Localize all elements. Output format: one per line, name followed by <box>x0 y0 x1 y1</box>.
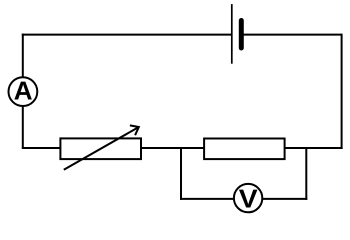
variable resistor R1 body <box>60 138 141 159</box>
battery cell short thick plate <box>239 21 244 49</box>
wire top-left horizontal <box>22 34 232 36</box>
svg-text:A: A <box>14 76 33 106</box>
variable resistor R1 arrow shaft <box>64 127 139 170</box>
resistor R2 body <box>204 139 285 160</box>
variable resistor R1 arrow head <box>130 125 139 135</box>
wire left vertical <box>22 34 24 148</box>
voltmeter V1 circle <box>234 184 262 212</box>
wire top-right horizontal <box>241 34 341 36</box>
svg-text:V: V <box>239 184 259 214</box>
battery cell long plate <box>231 4 233 64</box>
wire voltmeter bottom horizontal <box>180 198 307 200</box>
wire voltmeter left drop <box>180 147 182 200</box>
wire voltmeter right drop <box>305 147 307 200</box>
wire right vertical <box>341 34 343 149</box>
ammeter A1 circle <box>9 77 38 106</box>
wire bottom horizontal main <box>22 147 343 149</box>
